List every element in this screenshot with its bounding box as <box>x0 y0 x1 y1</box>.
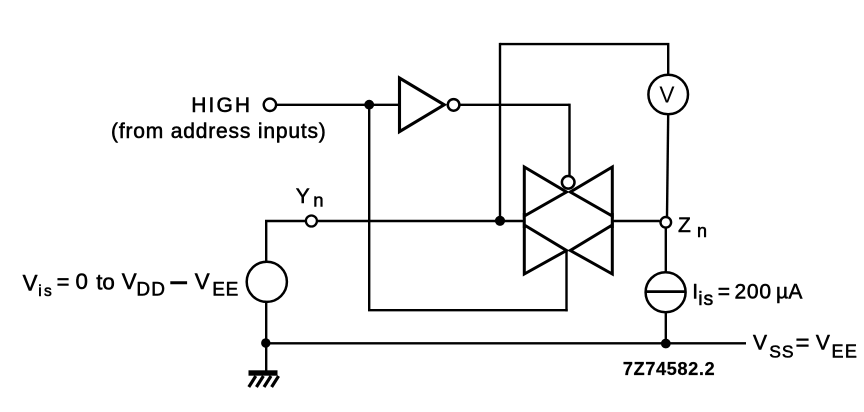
svg-text:SS: SS <box>769 342 794 362</box>
svg-text:Y: Y <box>296 185 310 208</box>
svg-text:0: 0 <box>759 281 771 304</box>
ground <box>249 370 279 387</box>
wire top control down to gate bubble <box>568 104 570 177</box>
wire gate to Zn <box>612 220 659 222</box>
svg-text:is: is <box>698 288 714 310</box>
transmission gate left edge join <box>523 213 526 228</box>
transmission gate top-right triangle <box>570 167 612 216</box>
junction Vis VSS node <box>261 338 270 347</box>
svg-text:2: 2 <box>735 281 747 304</box>
junction VSS node <box>661 339 671 349</box>
svg-text:HIGH: HIGH <box>191 94 252 117</box>
svg-text:n: n <box>697 221 707 241</box>
svg-text:V: V <box>753 331 767 354</box>
wire Vis to ground <box>265 302 267 372</box>
svg-text:to: to <box>96 269 115 294</box>
inverter <box>400 78 445 132</box>
wire voltmeter to Zn <box>667 115 668 217</box>
svg-text:V: V <box>659 82 675 108</box>
svg-text:=: = <box>796 330 810 357</box>
svg-text:V: V <box>816 331 830 354</box>
current source Iis <box>646 272 686 312</box>
transmission gate control bubble <box>562 176 575 189</box>
wire inverter output <box>460 104 570 106</box>
junction Yn node <box>495 216 505 226</box>
svg-text:(from address inputs): (from address inputs) <box>111 120 327 143</box>
svg-text:V: V <box>195 269 210 294</box>
svg-text:0: 0 <box>747 281 759 304</box>
svg-text:is: is <box>38 283 54 300</box>
transmission gate bottom-left triangle <box>524 225 566 274</box>
svg-text:µ: µ <box>776 281 788 304</box>
wire VSS bus <box>266 342 746 344</box>
svg-text:=: = <box>57 269 70 294</box>
wire Yn to gate <box>317 220 524 222</box>
junction HIGH node <box>364 100 374 110</box>
svg-text:V: V <box>122 269 137 294</box>
svg-text:n: n <box>313 190 323 211</box>
svg-text:DD: DD <box>136 279 166 300</box>
terminal Yn <box>306 216 317 227</box>
wire HIGH input to inverter <box>277 104 400 106</box>
wire bottom control up into gate <box>565 251 567 312</box>
svg-text:7Z74582.2: 7Z74582.2 <box>623 358 715 379</box>
svg-text:Z: Z <box>678 214 691 237</box>
transmission gate right edge join <box>611 213 614 228</box>
svg-text:V: V <box>23 270 38 295</box>
wire Zn to current source <box>665 228 667 272</box>
voltage source Vis <box>247 262 287 302</box>
svg-text:EE: EE <box>832 342 859 362</box>
transmission gate top-left triangle <box>524 167 566 216</box>
wire voltmeter branch vertical <box>499 43 501 221</box>
inverter output bubble <box>448 99 460 111</box>
svg-text:=: = <box>718 281 730 304</box>
svg-text:I: I <box>692 281 698 304</box>
wire bottom control horizontal <box>368 309 568 311</box>
svg-text:0: 0 <box>76 269 88 294</box>
svg-text:A: A <box>788 281 802 304</box>
wire Vis corner to Yn terminal <box>266 221 305 262</box>
voltmeter V <box>648 75 688 115</box>
wire HIGH node down <box>368 105 370 311</box>
svg-text:EE: EE <box>212 279 239 300</box>
wire top horizontal to voltmeter <box>500 44 668 74</box>
transmission gate bottom-right triangle <box>570 225 612 274</box>
terminal HIGH input <box>264 99 276 111</box>
terminal Zn <box>661 217 672 228</box>
wire current source to VSS bus <box>665 312 667 343</box>
